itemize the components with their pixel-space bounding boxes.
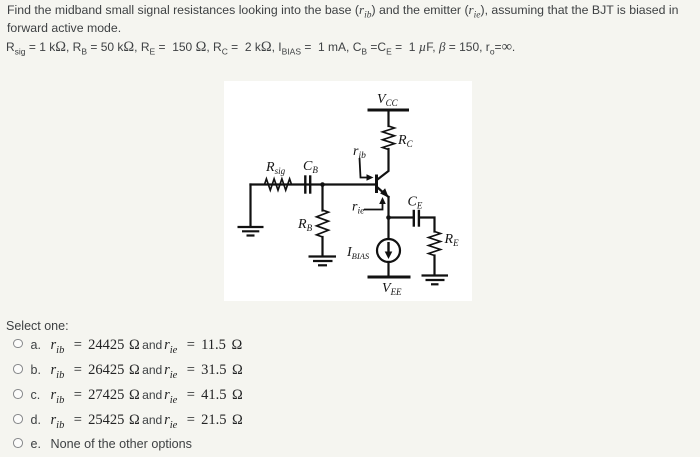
svg-text:VEE: VEE bbox=[382, 281, 402, 297]
circuit image bbox=[224, 81, 472, 301]
ground under RE bbox=[422, 276, 449, 285]
ground at input bbox=[238, 227, 264, 236]
Vee supply rail bbox=[369, 276, 409, 279]
IBIAS arrow bbox=[385, 242, 393, 259]
arrow pointer r_ib bbox=[360, 158, 369, 178]
svg-text:RC: RC bbox=[397, 133, 414, 149]
node dot at emitter junction bbox=[386, 215, 391, 220]
wire Vcc rail to Rc bbox=[387, 110, 389, 126]
wire node to RB bbox=[321, 185, 323, 211]
resistor RB bbox=[317, 210, 329, 237]
node dot at base junction bbox=[320, 182, 325, 187]
capacitor CB bbox=[304, 177, 306, 193]
arrow pointer r_ie bbox=[364, 202, 383, 210]
transistor Q1 emitter bbox=[378, 188, 389, 198]
wire node to CE bbox=[389, 216, 413, 218]
svg-text:IBIAS: IBIAS bbox=[346, 245, 370, 261]
resistor RC bbox=[383, 126, 395, 150]
svg-text:VCC: VCC bbox=[377, 92, 399, 108]
wire RE to ground bbox=[433, 256, 435, 275]
wire IBIAS to VEE rail bbox=[387, 262, 389, 276]
svg-text:Rsig: Rsig bbox=[265, 160, 286, 176]
svg-text:RE: RE bbox=[444, 232, 460, 248]
wire base bbox=[251, 183, 377, 185]
svg-text:CB: CB bbox=[303, 159, 318, 175]
wire RB to ground bbox=[321, 237, 323, 256]
svg-text:rie: rie bbox=[352, 200, 364, 217]
capacitor CE bbox=[413, 211, 415, 226]
svg-text:rib: rib bbox=[353, 144, 366, 161]
resistor RE bbox=[429, 232, 441, 256]
Vcc supply rail bbox=[369, 109, 408, 112]
wire CE to RE bbox=[421, 218, 435, 232]
current source IBIAS circle bbox=[377, 239, 400, 262]
resistor Rsig bbox=[265, 179, 292, 190]
emitter arrowhead bbox=[380, 188, 389, 198]
svg-text:RB: RB bbox=[297, 217, 313, 233]
wire emitter down to node bbox=[387, 197, 389, 239]
transistor Q1 base bar bbox=[375, 176, 378, 192]
ground under RB bbox=[309, 257, 337, 266]
wire input drop to ground bbox=[249, 185, 251, 227]
svg-text:CE: CE bbox=[408, 195, 423, 211]
wire Rc to collector bbox=[378, 149, 389, 180]
